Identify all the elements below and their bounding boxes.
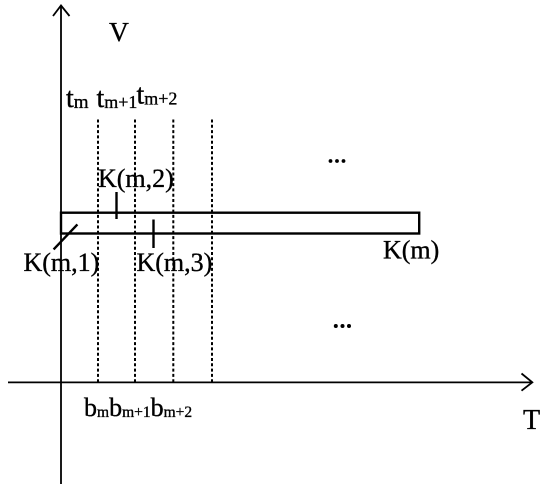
svg-text:K(m,3): K(m,3) [137, 248, 213, 277]
slash pointer for K(m,1) [54, 224, 78, 249]
svg-text:T: T [523, 405, 540, 436]
svg-text:V: V [109, 16, 129, 47]
dotted line at t_m [97, 120, 99, 383]
V axis [60, 7, 62, 484]
svg-text:K(m): K(m) [383, 236, 439, 265]
svg-text:K(m,1): K(m,1) [24, 248, 100, 277]
lower ellipsis [334, 324, 351, 328]
interval rectangle K(m) [61, 213, 419, 234]
svg-text:bmbm+1bm+2: bmbm+1bm+2 [84, 393, 192, 422]
svg-text:K(m,2): K(m,2) [98, 164, 174, 193]
dotted line at t_m+2 [172, 120, 174, 383]
svg-text:tm: tm [66, 83, 89, 114]
svg-text:tm+1: tm+1 [97, 83, 138, 114]
dotted line 4 [211, 120, 213, 383]
upper ellipsis [329, 159, 346, 163]
tick pointer for K(m,2) [115, 192, 117, 219]
tick pointer for K(m,3) [152, 220, 154, 249]
T axis arrowhead [522, 374, 533, 391]
T axis [8, 381, 531, 383]
dotted line at t_m+1 [134, 120, 136, 383]
svg-text:tm+2: tm+2 [137, 80, 178, 111]
V axis arrowhead [53, 6, 70, 17]
